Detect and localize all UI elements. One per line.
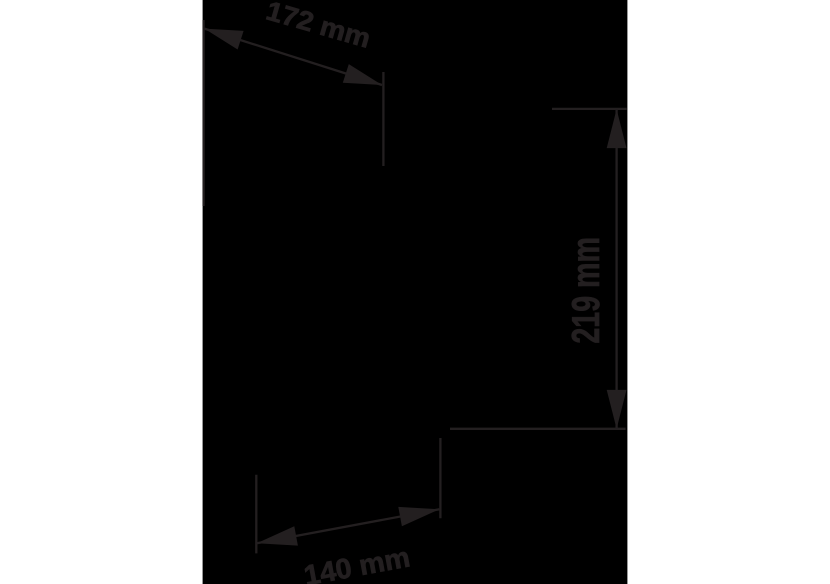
arrowhead height top [607, 109, 627, 148]
arrowhead width left [204, 29, 243, 50]
width dim line 172 [204, 29, 382, 85]
width dim extension line left [202, 20, 204, 206]
arrowhead depth right [398, 507, 439, 526]
height dim extension line top [552, 108, 627, 110]
product image band (black) [203, 0, 628, 584]
height dim line 219 [615, 109, 617, 428]
width dim extension line right [382, 72, 384, 166]
arrowhead height bottom [607, 390, 627, 429]
arrowhead width right [343, 64, 382, 85]
depth dim line 140 [257, 509, 440, 543]
depth dim extension line right [439, 438, 441, 518]
svg-text:219 mm: 219 mm [565, 237, 608, 344]
depth dim extension line left [255, 475, 257, 554]
height dim extension line bottom [450, 428, 626, 430]
arrowhead depth left [257, 526, 298, 545]
